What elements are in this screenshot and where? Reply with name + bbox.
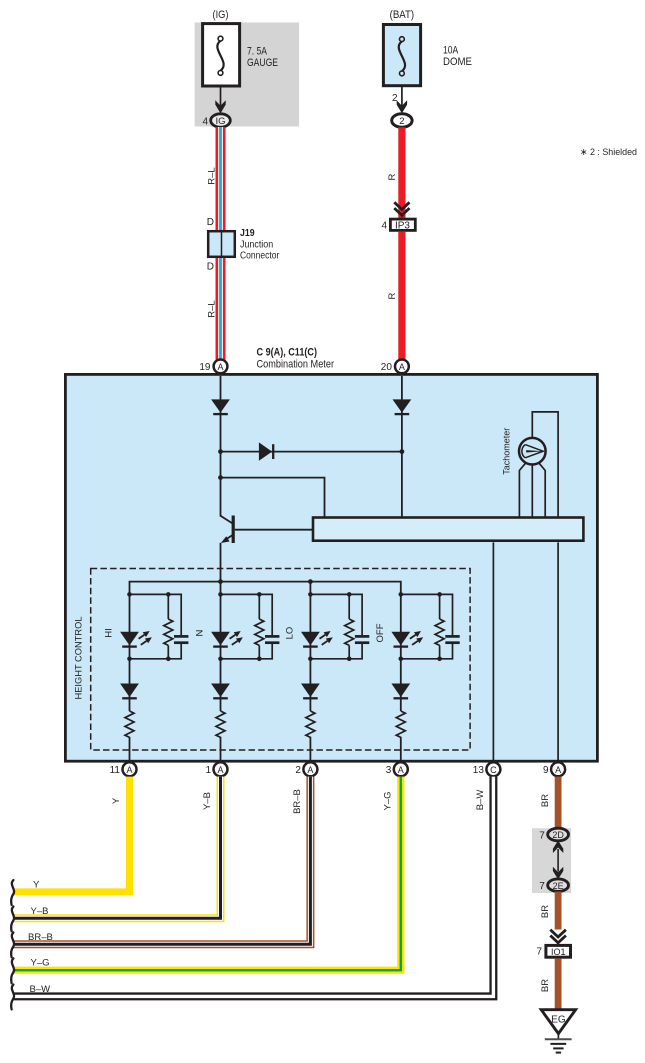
svg-text:DOME: DOME [443,56,472,68]
svg-text:7: 7 [536,946,542,957]
svg-text:(BAT): (BAT) [390,9,415,21]
diode (series) N [211,684,230,699]
continuation squiggle Y-B [11,907,14,932]
svg-text:GAUGE: GAUGE [247,57,278,69]
svg-text:BR: BR [540,905,551,918]
page chevron above IP3 [394,202,409,215]
wire bus to pin 9 [557,542,559,760]
junction dot [127,592,132,597]
wire base feed to bus [221,478,325,518]
height control dashed box [91,569,470,751]
svg-text:19: 19 [199,362,211,373]
wire rail drop LO [309,582,311,595]
resistor (parallel) LO [345,594,354,658]
svg-text:HEIGHT CONTROL: HEIGHT CONTROL [74,617,85,700]
svg-text:BR: BR [540,979,551,992]
svg-text:2: 2 [399,116,404,127]
svg-text:7. 5A: 7. 5A [247,46,268,58]
wire node19 to node20 [221,451,402,453]
wire pin19 stem [220,376,222,517]
wire fuse BAT to connector [401,86,403,106]
svg-text:A: A [217,362,223,372]
junction dot [399,592,404,597]
wire B-W [13,777,493,997]
internal bus bar [313,518,583,541]
connector IP3 [390,219,415,230]
wire BR (pin9 to 2D) [555,777,562,829]
LED LO [301,631,333,647]
resistor (parallel) N [255,594,264,658]
pin 13 (C) connector [473,762,501,776]
wire BR (2E to IO1) [555,892,562,930]
svg-text:LO: LO [284,627,295,640]
junction dot [347,657,352,662]
diode D3 [259,442,273,460]
continuation squiggle B-W [11,985,14,1010]
capacitor HI [174,636,188,642]
connector 2D [548,828,569,841]
svg-text:C: C [490,765,497,775]
svg-text:3: 3 [386,765,392,776]
svg-text:4: 4 [202,116,208,127]
pin 19 connector [214,360,228,374]
svg-text:Y–B: Y–B [31,906,49,917]
svg-text:Y–G: Y–G [31,958,50,969]
svg-text:D: D [207,217,214,228]
svg-text:2: 2 [295,765,301,776]
pin 20 connector [395,360,409,374]
wire emitter down [220,543,222,583]
svg-text:A: A [398,765,404,775]
junction dot [347,592,352,597]
terminal arrow into IG [215,100,225,113]
continuation squiggle Y [11,880,14,905]
fuse 7.5A GAUGE [203,24,240,86]
tachometer loop wire [532,412,558,518]
tachometer leg centre [531,464,533,518]
svg-text:B–W: B–W [30,984,51,995]
junction dot [308,592,313,597]
pin 9 (A) connector [543,762,565,776]
continuation squiggle BR-B [11,933,14,958]
wire bus to pin 13 [492,542,494,760]
junction dot [166,592,171,597]
junction dot [218,579,223,584]
svg-text:Y–G: Y–G [382,791,393,810]
wire transistor base [235,529,313,531]
svg-text:R: R [387,292,398,299]
svg-text:Connector: Connector [240,251,280,262]
indicator cell LO [310,594,362,762]
junction dot [218,592,223,597]
resistor (series) OFF [396,711,405,737]
resistor (series) N [216,711,225,737]
diode (series) HI [120,684,139,699]
indicator cell HI [130,594,182,762]
indicator cell N [221,594,273,762]
svg-text:A: A [307,765,313,775]
svg-text:IP3: IP3 [395,220,410,231]
svg-text:A: A [217,765,223,775]
connector 2E [548,879,569,892]
page chevron above IO1 [550,930,566,943]
svg-text:C 9(A), C11(C): C 9(A), C11(C) [257,347,318,359]
svg-text:10A: 10A [443,45,459,57]
svg-text:BR–B: BR–B [28,932,53,943]
ground symbol [545,1034,572,1053]
resistor (parallel) HI [164,594,173,658]
tachometer gauge [519,438,546,465]
svg-text:A: A [399,362,405,372]
pin 11 (A) connector [110,762,137,776]
svg-text:R–L: R–L [207,300,218,317]
junction dot [308,657,313,662]
svg-text:IG: IG [215,116,225,127]
svg-text:D: D [207,262,214,273]
wire led rail [130,582,401,595]
wire pin20 stem [401,376,403,518]
connector 2 [392,114,412,128]
junction dot [399,657,404,662]
wire R-L (IG to J19) [216,127,226,231]
capacitor OFF [445,636,459,642]
junction dot [400,449,405,454]
svg-text:9: 9 [543,765,549,776]
svg-text:A: A [555,765,561,775]
svg-text:R–L: R–L [207,167,218,184]
svg-text:A: A [126,765,132,775]
svg-text:Combination Meter: Combination Meter [257,359,335,371]
capacitor N [265,636,279,642]
wire fuse IG to connector [220,86,222,106]
junction dot [166,657,171,662]
svg-text:20: 20 [381,362,393,373]
junction dot [437,657,442,662]
gray block 2D/2E [532,828,571,893]
svg-text:BR–B: BR–B [292,789,303,814]
svg-text:(IG): (IG) [213,9,229,21]
tachometer leg left [519,463,525,518]
svg-text:R: R [387,173,398,180]
svg-text:∗ 2 : Shielded: ∗ 2 : Shielded [580,147,637,158]
svg-text:EG: EG [551,1015,566,1026]
junction dot [437,592,442,597]
indicator cell OFF [401,594,453,762]
pin 1 (A) connector [205,762,227,776]
wire Y-B [13,777,221,919]
wire Y [13,777,130,892]
connector IO1 [546,945,571,957]
svg-text:Y: Y [111,797,122,804]
junction dot [218,475,223,480]
gray block around fuse (IG) [195,23,300,127]
junction dot [257,592,262,597]
svg-text:OFF: OFF [375,623,386,642]
capacitor LO [355,636,369,642]
transistor Q1 [221,516,234,544]
tachometer leg right [539,463,545,518]
wire R-L (J19 to pin 19) [216,258,226,360]
svg-text:1: 1 [205,765,211,776]
diode (series) LO [301,684,320,699]
junction dot [257,657,262,662]
svg-text:11: 11 [110,765,121,776]
svg-text:7: 7 [539,881,545,892]
svg-text:2E: 2E [553,881,564,891]
pin 3 (A) connector [386,762,408,776]
svg-text:HI: HI [104,628,115,638]
svg-text:IO1: IO1 [551,947,566,957]
svg-text:Y–B: Y–B [202,792,213,810]
resistor (parallel) OFF [435,594,444,658]
svg-text:2D: 2D [552,830,564,840]
svg-text:4: 4 [381,220,387,231]
svg-text:BR: BR [540,794,551,807]
wire BR-B [13,777,310,945]
svg-text:Tachometer: Tachometer [502,428,513,475]
wire Y-G [13,777,401,971]
ground EG triangle [541,1010,575,1034]
junction connector J19 [208,231,235,257]
svg-text:7: 7 [539,830,545,841]
svg-text:J19: J19 [240,228,255,239]
junction dot [127,657,132,662]
LED OFF [391,631,423,647]
LED N [211,631,243,647]
junction dot [218,657,223,662]
pin 2 (A) connector [295,762,317,776]
resistor (series) HI [125,711,134,737]
fuse 10A DOME [383,25,420,86]
diode D1 [211,399,230,414]
svg-text:Y: Y [33,880,40,891]
wire BR (IO1 to ground) [555,959,562,1011]
LED HI [120,631,152,647]
junction dot [218,449,223,454]
resistor (series) LO [306,711,315,737]
diode (series) OFF [391,684,410,699]
svg-text:N: N [195,629,206,636]
wire R (2 to IP3) [398,127,405,218]
continuation squiggle Y-G [11,958,14,983]
junction dot [308,579,313,584]
svg-text:13: 13 [473,765,485,776]
svg-text:Junction: Junction [240,240,273,251]
svg-text:B–W: B–W [475,790,486,811]
diode D2 [393,399,412,414]
wire R (IP3 to pin 20) [398,232,405,360]
combination meter box [65,374,597,761]
wire rail drop N [220,582,222,595]
terminal arrow into 2 [397,100,407,113]
inter-connector arrows [553,841,563,880]
connector IG [211,114,231,127]
